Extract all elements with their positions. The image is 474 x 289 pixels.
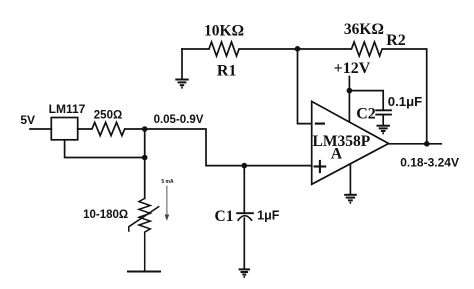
svg-text:250Ω: 250Ω bbox=[94, 110, 122, 122]
svg-text:5V: 5V bbox=[20, 113, 35, 127]
svg-text:A: A bbox=[331, 145, 343, 162]
svg-text:0.18-3.24V: 0.18-3.24V bbox=[400, 156, 459, 170]
svg-text:36KΩ: 36KΩ bbox=[344, 21, 384, 38]
svg-text:+12V: +12V bbox=[334, 60, 371, 77]
svg-text:0.05-0.9V: 0.05-0.9V bbox=[154, 114, 204, 126]
svg-text:10-180Ω: 10-180Ω bbox=[83, 209, 128, 221]
svg-text:R2: R2 bbox=[386, 32, 406, 49]
svg-text:0.1μF: 0.1μF bbox=[388, 94, 422, 109]
svg-text:10KΩ: 10KΩ bbox=[204, 23, 244, 40]
svg-text:1μF: 1μF bbox=[257, 209, 280, 223]
svg-text:R1: R1 bbox=[217, 63, 237, 80]
svg-text:5 mA: 5 mA bbox=[161, 179, 174, 185]
svg-text:LM117: LM117 bbox=[49, 102, 86, 116]
svg-text:C2: C2 bbox=[356, 106, 376, 123]
svg-text:C1: C1 bbox=[215, 208, 234, 225]
